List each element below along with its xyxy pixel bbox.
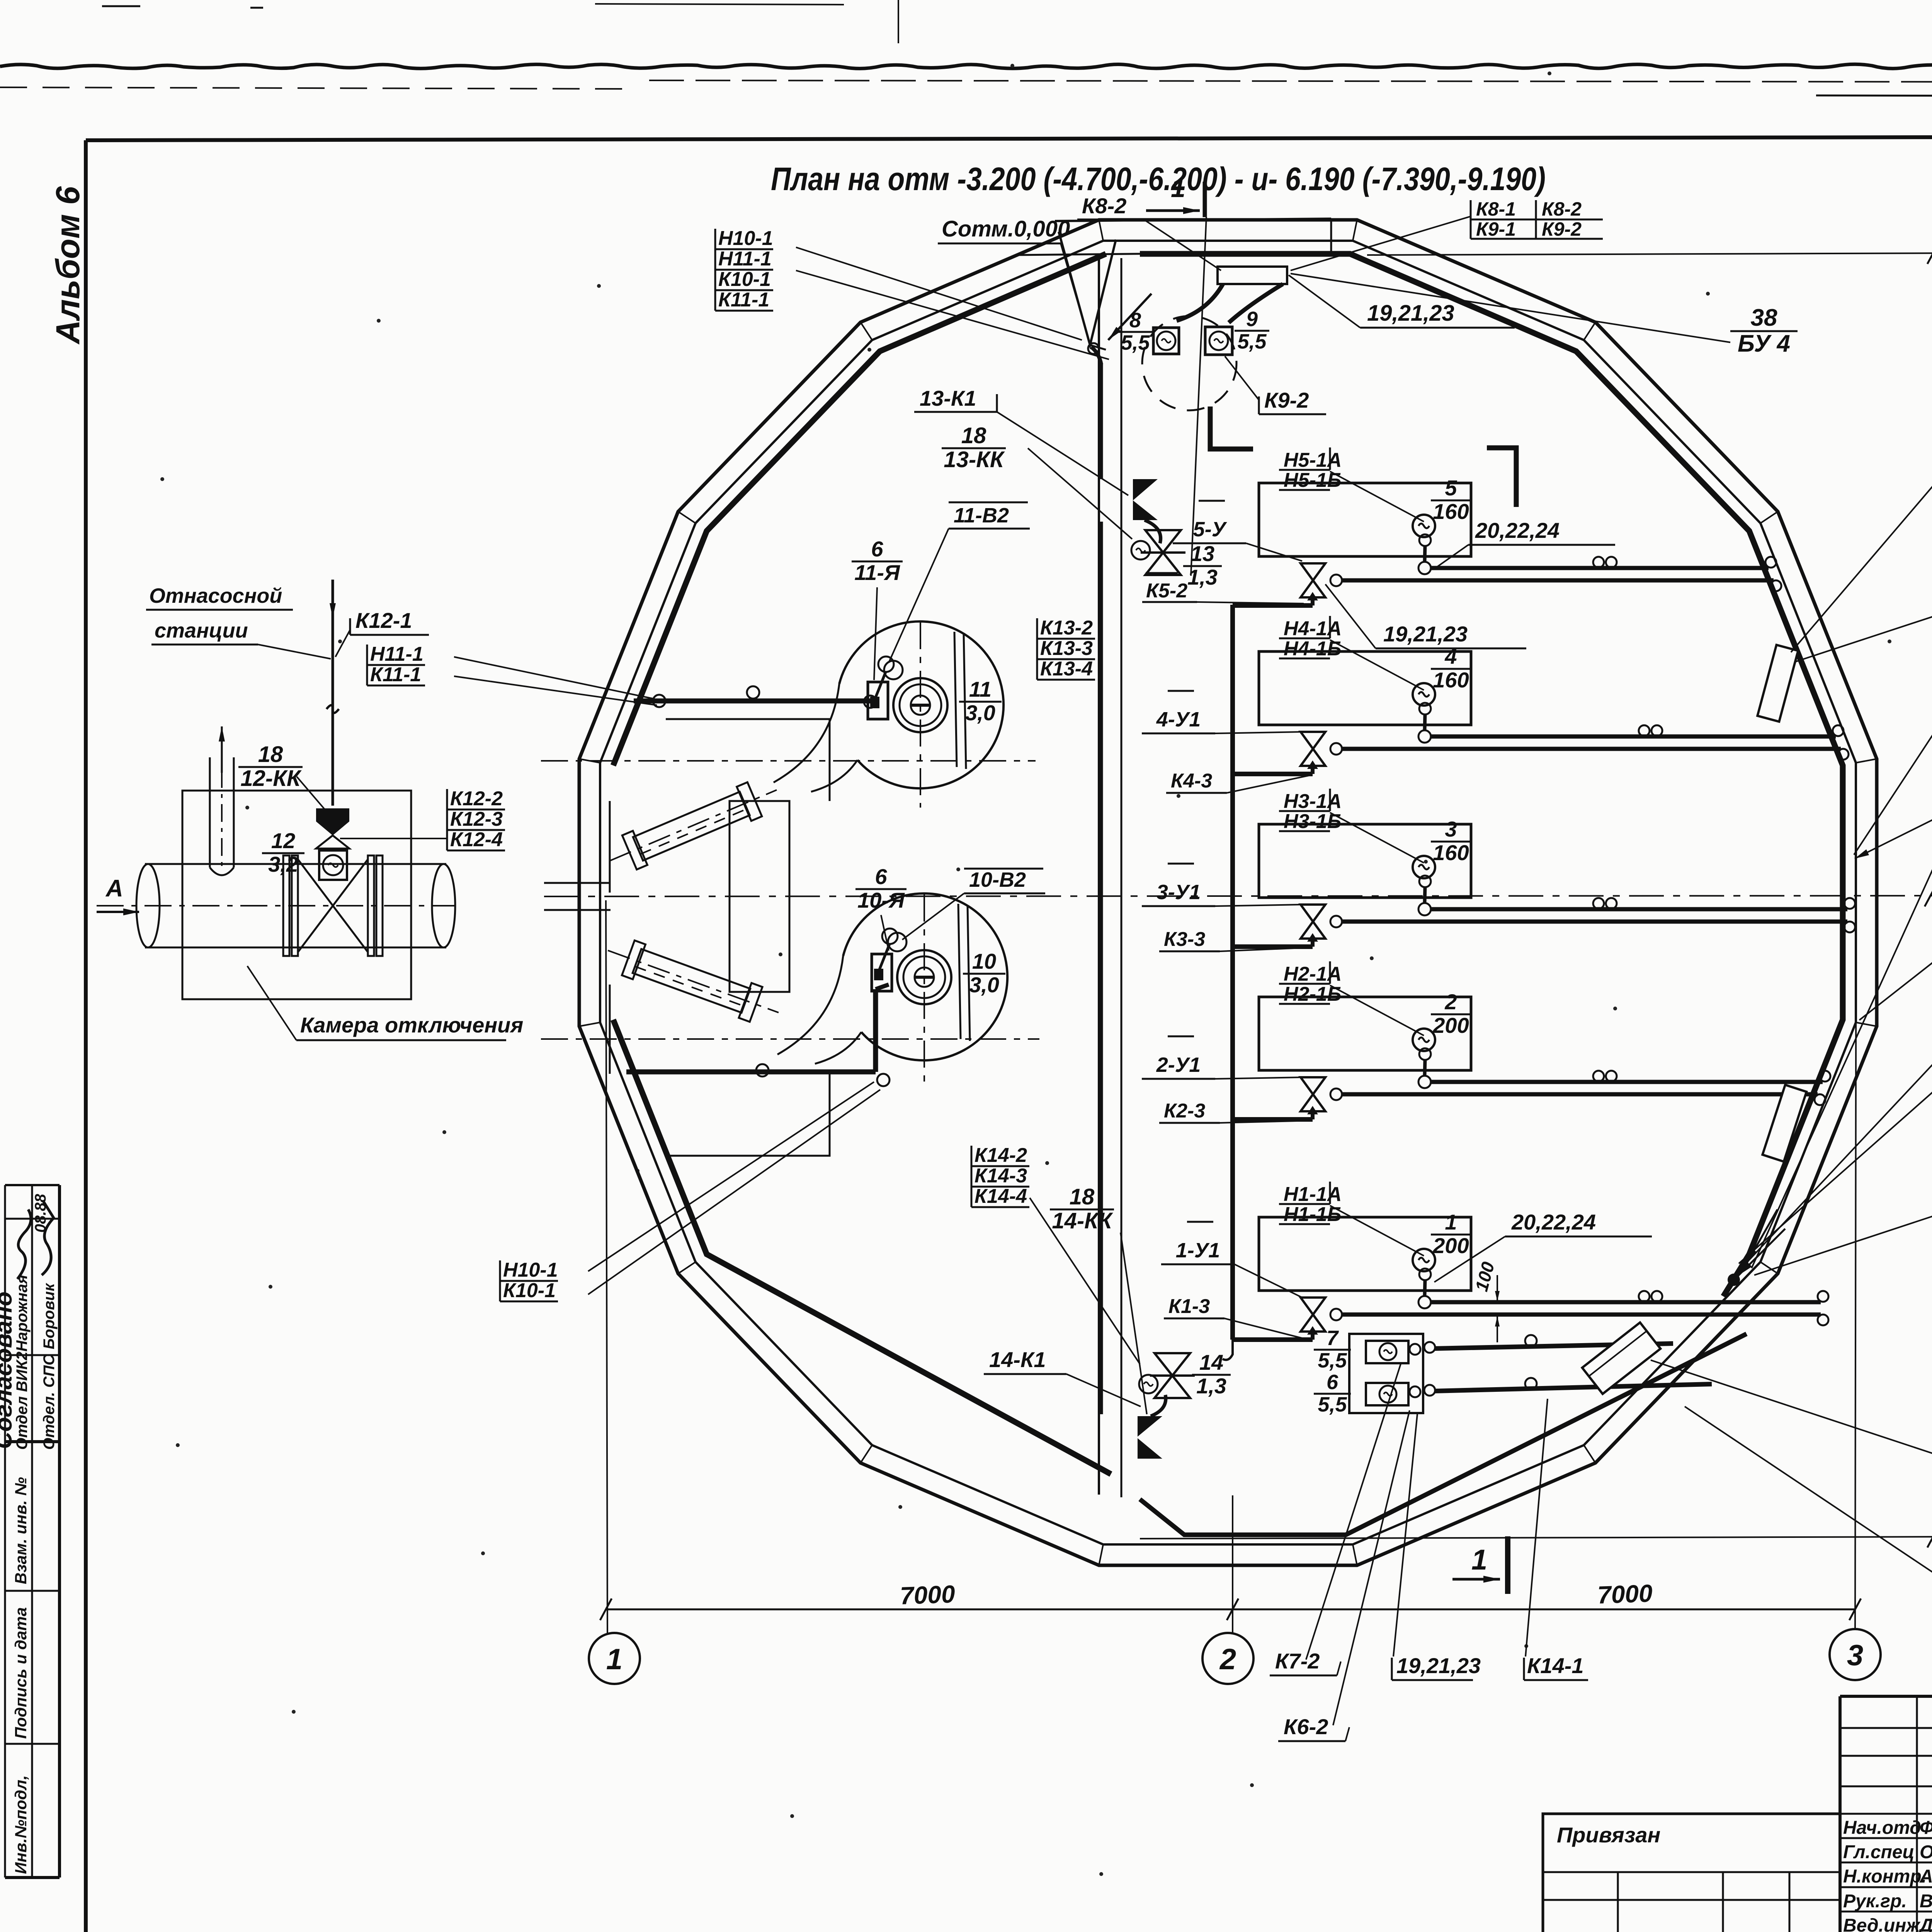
wall arrows cluster <box>1739 1229 1785 1275</box>
axis Б centerline <box>544 896 1932 896</box>
valve 4 (hourglass) <box>1301 732 1325 749</box>
svg-text:Фролов: Фролов <box>1920 1818 1932 1838</box>
valve 1 (hourglass) <box>1301 1298 1325 1315</box>
svg-text:Н10-1: Н10-1 <box>503 1259 558 1281</box>
svg-text:18: 18 <box>961 423 986 448</box>
svg-text:11: 11 <box>969 677 992 701</box>
valve 14 (hourglass) with motor <box>1155 1353 1190 1398</box>
svg-text:7000: 7000 <box>1597 1579 1653 1609</box>
svg-text:12: 12 <box>271 828 295 853</box>
svg-text:3,0: 3,0 <box>969 973 999 997</box>
svg-text:Обозная: Обозная <box>1920 1842 1932 1862</box>
inlet pipes (left) <box>602 773 784 878</box>
fold mark top <box>898 0 899 43</box>
svg-text:К10-1: К10-1 <box>718 268 771 291</box>
valve stub row 5 <box>1233 603 1313 608</box>
svg-text:К9-1: К9-1 <box>1476 218 1516 240</box>
svg-text:Н11-1: Н11-1 <box>718 248 772 270</box>
axis circle 1 <box>589 1633 640 1684</box>
svg-text:Камера отключения: Камера отключения <box>300 1013 523 1037</box>
cable riser bracket upper <box>1210 406 1253 449</box>
cable row 1 joint circles <box>1639 1291 1650 1302</box>
svg-text:11-В2: 11-В2 <box>954 504 1009 527</box>
svg-text:5,5: 5,5 <box>1237 330 1267 353</box>
scan top small dashes <box>102 5 140 7</box>
fan cables (thick) <box>1177 284 1223 321</box>
svg-text:Варчан: Варчан <box>1920 1891 1932 1912</box>
intake chamber walls <box>666 719 830 801</box>
svg-text:1: 1 <box>606 1643 622 1676</box>
cable row 5 joint circles <box>1593 557 1604 568</box>
svg-text:Альбом 6: Альбом 6 <box>49 186 87 345</box>
svg-text:200: 200 <box>1432 1233 1469 1258</box>
svg-text:19,21,23: 19,21,23 <box>1367 301 1454 326</box>
dim 100 with arrow <box>1497 1275 1498 1301</box>
svg-text:Дорофеев: Дорофеев <box>1918 1915 1932 1932</box>
svg-text:К12-1: К12-1 <box>355 608 412 633</box>
svg-text:Н11-1: Н11-1 <box>370 643 423 665</box>
svg-text:Гл.спец: Гл.спец <box>1843 1842 1915 1862</box>
aux pump 7 <box>1366 1341 1408 1363</box>
aux pump 7 cable <box>1410 1344 1420 1355</box>
svg-text:19,21,23: 19,21,23 <box>1383 622 1468 646</box>
pump 2 label leader <box>1330 985 1424 1036</box>
svg-text:К14-1: К14-1 <box>1527 1653 1584 1678</box>
cable line row 5 upper (thick) <box>1431 566 1769 570</box>
station outer wall <box>579 220 1877 1565</box>
svg-text:1: 1 <box>1471 1544 1487 1576</box>
valve collector (thick vertical) <box>1230 605 1235 1340</box>
svg-text:Нач.отд: Нач.отд <box>1843 1818 1921 1838</box>
cable К12-1 line <box>332 603 334 806</box>
svg-text:БУ 4: БУ 4 <box>1738 330 1790 357</box>
pump 3 label leader <box>1330 813 1424 863</box>
valve 3 (hourglass) <box>1301 905 1325 922</box>
svg-text:К1-3: К1-3 <box>1168 1295 1210 1318</box>
pump unit 5 outline <box>1259 483 1471 556</box>
svg-text:2: 2 <box>1444 990 1457 1014</box>
main pump 11 motor <box>893 678 947 732</box>
svg-text:Аронсон: Аронсон <box>1919 1866 1932 1887</box>
dimension line bottom <box>606 1609 1855 1611</box>
svg-text:К3-3: К3-3 <box>1164 928 1205 951</box>
svg-text:Отдел. СПС: Отдел. СПС <box>41 1354 58 1450</box>
main pipe <box>145 863 446 865</box>
svg-text:К11-1: К11-1 <box>718 289 769 311</box>
svg-text:К5-2: К5-2 <box>1146 580 1187 602</box>
valve 5 (hourglass) <box>1301 563 1325 580</box>
svg-text:10-Я: 10-Я <box>857 888 905 912</box>
svg-text:5,5: 5,5 <box>1318 1349 1347 1372</box>
cable line row 4 lower (thick) <box>1342 747 1841 751</box>
svg-text:Н3-1А: Н3-1А <box>1284 790 1342 813</box>
fan 8 box <box>1153 328 1179 354</box>
ventilation slab on top flat <box>1055 219 1331 221</box>
svg-text:14-К1: 14-К1 <box>989 1347 1046 1372</box>
cable tray lining along wall (thick) <box>613 254 1106 765</box>
svg-text:2: 2 <box>1219 1643 1236 1676</box>
pump 10 supply cable (thick) <box>626 1070 876 1075</box>
pipe valve flanges <box>283 855 289 956</box>
svg-text:14: 14 <box>1199 1350 1223 1374</box>
cable row 3 joint circles <box>1593 898 1604 909</box>
svg-text:К8-2: К8-2 <box>1082 194 1126 218</box>
svg-text:11-Я: 11-Я <box>854 560 900 585</box>
drain pipe up <box>209 757 211 867</box>
svg-text:10-В2: 10-В2 <box>969 868 1026 891</box>
svg-text:К12-2: К12-2 <box>450 787 503 810</box>
main pump 10 bracket <box>872 954 892 991</box>
svg-text:6: 6 <box>875 864 887 889</box>
svg-text:К13-2: К13-2 <box>1040 617 1093 639</box>
svg-text:К7-2: К7-2 <box>1275 1649 1320 1673</box>
motor box on pipe <box>319 850 347 880</box>
svg-text:Сотм.0,000: Сотм.0,000 <box>942 216 1070 241</box>
aux pump group box <box>1349 1334 1423 1413</box>
collector foot line <box>1190 1342 1192 1344</box>
left stamp signatures <box>17 1209 31 1279</box>
svg-text:160: 160 <box>1433 840 1469 865</box>
svg-text:Н1-1А: Н1-1А <box>1284 1183 1342 1206</box>
svg-text:План на отм -3.200 (-4.700,-6.: План на отм -3.200 (-4.700,-6.200) - и- … <box>771 161 1546 197</box>
svg-text:1: 1 <box>1445 1210 1457 1234</box>
bottom inner floor line <box>1140 1334 1747 1535</box>
svg-text:К10-1: К10-1 <box>503 1279 556 1302</box>
svg-text:К12-3: К12-3 <box>450 808 503 830</box>
svg-text:Подпись и дата: Подпись и дата <box>12 1607 30 1739</box>
svg-text:3-У1: 3-У1 <box>1156 881 1201 904</box>
wall segment joints <box>1353 220 1357 241</box>
pump 2 motor symbol <box>1413 1029 1435 1051</box>
axis line А <box>1140 1537 1932 1539</box>
svg-text:К4-3: К4-3 <box>1171 770 1212 792</box>
svg-text:18: 18 <box>1070 1184 1095 1209</box>
svg-text:Н2-1А: Н2-1А <box>1284 963 1342 985</box>
valve stub row 1 <box>1233 1337 1313 1342</box>
pump 4 label leader <box>1330 640 1424 690</box>
svg-text:К12-4: К12-4 <box>450 828 503 851</box>
junction box БУ3 (rotated plate) <box>1582 1323 1661 1394</box>
svg-text:13: 13 <box>1190 541 1214 566</box>
pump 4 motor symbol <box>1413 683 1435 706</box>
svg-text:38: 38 <box>1751 304 1777 331</box>
wedge arrow <box>1108 294 1151 340</box>
main pump 11 discharge lines <box>954 632 957 767</box>
svg-text:Взам. инв. №: Взам. инв. № <box>12 1477 30 1584</box>
scan line top right <box>1816 95 1932 97</box>
svg-text:12-КК: 12-КК <box>240 766 301 791</box>
aux pump 6 <box>1366 1383 1408 1405</box>
svg-text:20,22,24: 20,22,24 <box>1511 1210 1596 1234</box>
drawing frame <box>86 136 1932 140</box>
black valve on К12-1 <box>316 808 349 821</box>
svg-text:К13-4: К13-4 <box>1040 658 1093 680</box>
svg-text:7000: 7000 <box>900 1580 956 1610</box>
svg-text:Н5-1А: Н5-1А <box>1284 449 1342 471</box>
svg-text:Привязан: Привязан <box>1557 1823 1660 1847</box>
valve stub row 3 <box>1233 944 1313 949</box>
svg-text:Инв.№подл,: Инв.№подл, <box>12 1775 30 1874</box>
svg-text:К11-1: К11-1 <box>370 663 421 686</box>
main pump 10 volute <box>843 893 1007 1060</box>
valve stub row 4 <box>1233 772 1313 776</box>
axis 1 extension line <box>606 900 607 1633</box>
svg-text:Боровик: Боровик <box>41 1283 58 1349</box>
cable row 2 joint circles <box>1593 1071 1604 1082</box>
axis circle 2 <box>1202 1633 1253 1684</box>
svg-text:К8-2: К8-2 <box>1542 198 1582 220</box>
main pump 11 volute <box>839 621 1003 788</box>
pump 1 motor symbol <box>1413 1249 1435 1271</box>
svg-text:1,3: 1,3 <box>1196 1374 1226 1398</box>
left stamp table <box>5 1184 60 1186</box>
svg-text:19,21,23: 19,21,23 <box>1396 1653 1481 1678</box>
pump 10 shaft circle <box>888 933 906 951</box>
pump 1 label leader <box>1330 1206 1424 1256</box>
cable line row 3 upper (thick) <box>1431 907 1847 912</box>
section cut line <box>1191 217 1206 576</box>
pump 5 motor symbol <box>1413 515 1435 537</box>
svg-text:200: 200 <box>1432 1013 1469 1037</box>
svg-text:Вед.инж.: Вед.инж. <box>1843 1915 1925 1932</box>
svg-text:Согласовано: Согласовано <box>0 1291 17 1449</box>
pump unit 1 outline <box>1259 1217 1471 1291</box>
svg-text:6: 6 <box>871 537 883 561</box>
svg-text:Н10-1: Н10-1 <box>718 227 773 250</box>
cable line row 1 lower (thick) <box>1342 1313 1821 1317</box>
svg-text:3: 3 <box>1445 817 1457 841</box>
svg-text:Н4-1А: Н4-1А <box>1284 617 1342 640</box>
cable line row 4 upper (thick) <box>1431 735 1836 739</box>
chamber outline <box>182 791 411 999</box>
svg-text:3: 3 <box>1847 1639 1863 1672</box>
axis 2 extension line <box>1232 1495 1233 1633</box>
axis circle 3 <box>1830 1629 1881 1680</box>
dashed circle (vent zone) <box>1142 316 1236 410</box>
pump unit 3 outline <box>1259 824 1471 898</box>
svg-text:8: 8 <box>1129 309 1141 332</box>
pump 10 axis <box>541 1038 1039 1040</box>
svg-text:1-У1: 1-У1 <box>1176 1239 1220 1262</box>
pump 11 axis <box>541 760 1036 762</box>
svg-text:К2-3: К2-3 <box>1164 1100 1205 1122</box>
main pump 11 bracket <box>868 682 888 719</box>
svg-text:К14-4: К14-4 <box>975 1185 1027 1207</box>
cable line row 2 upper (thick) <box>1431 1080 1823 1084</box>
axis 3 extension line <box>1855 784 1856 1629</box>
cable riser bracket right <box>1487 448 1516 507</box>
scan edge dashed line top <box>0 87 622 89</box>
svg-text:10: 10 <box>972 949 996 973</box>
vent slab left wedge <box>1059 232 1116 345</box>
svg-text:13-К1: 13-К1 <box>920 386 976 410</box>
pump 11 supply cable (thick) <box>634 699 870 704</box>
junction box БУ1 (rotated plate) <box>1762 1085 1806 1162</box>
cable line row 5 lower (thick) <box>1342 578 1774 583</box>
scan dots <box>377 319 381 323</box>
svg-text:4-У1: 4-У1 <box>1156 708 1201 731</box>
pump 3 motor symbol <box>1413 856 1435 878</box>
svg-text:3,0: 3,0 <box>965 701 995 725</box>
svg-text:К9-2: К9-2 <box>1542 218 1582 240</box>
svg-text:К8-1: К8-1 <box>1476 198 1516 220</box>
svg-text:К9-2: К9-2 <box>1264 388 1309 412</box>
svg-text:1,3: 1,3 <box>1187 565 1218 589</box>
svg-text:К13-3: К13-3 <box>1040 637 1093 660</box>
svg-text:Н.контр.: Н.контр. <box>1843 1866 1927 1887</box>
inlet stub through wall <box>544 882 611 884</box>
main pump 10 discharge lines <box>958 904 961 1039</box>
svg-text:7: 7 <box>1327 1327 1339 1350</box>
svg-text:6: 6 <box>1327 1371 1338 1394</box>
svg-text:14-КК: 14-КК <box>1052 1208 1113 1233</box>
svg-text:9: 9 <box>1246 308 1258 331</box>
vent unit rectangle <box>1218 267 1287 284</box>
pipe valve cross <box>298 859 368 952</box>
cable line row 2 lower (thick) <box>1342 1092 1818 1097</box>
fan 9 box <box>1205 327 1232 355</box>
svg-text:2-У1: 2-У1 <box>1156 1053 1201 1077</box>
pump unit 4 outline <box>1259 651 1471 725</box>
svg-text:5-У: 5-У <box>1193 518 1227 541</box>
title block outer <box>1838 1696 1842 1932</box>
svg-text:К14-3: К14-3 <box>975 1165 1027 1187</box>
junction box БУ2 (rotated plate) <box>1757 645 1798 722</box>
cable entry 14-К1 (black flags) <box>1138 1416 1162 1437</box>
pump 11 shaft circle <box>884 661 903 679</box>
cable line row 1 upper (thick) <box>1431 1300 1821 1304</box>
svg-text:13-КК: 13-КК <box>944 447 1005 472</box>
corridor wall lines <box>1098 258 1100 1495</box>
svg-text:160: 160 <box>1433 668 1469 692</box>
aux pump 6 cable <box>1410 1386 1420 1397</box>
axis line В <box>1367 253 1932 255</box>
labels К8-1 К8-2 К9-1 К9-2 box <box>1470 200 1472 239</box>
svg-text:5,5: 5,5 <box>1318 1393 1347 1416</box>
svg-text:5,5: 5,5 <box>1121 331 1150 354</box>
cable row 4 joint circles <box>1639 725 1650 736</box>
valve 13 (hourglass) with motor <box>1145 530 1181 575</box>
scan edge wavy line top <box>0 64 1932 68</box>
svg-text:18: 18 <box>258 742 283 767</box>
station inner wall <box>600 241 1856 1544</box>
svg-text:станции: станции <box>155 619 248 642</box>
svg-text:160: 160 <box>1433 499 1469 524</box>
svg-text:Рук.гр.: Рук.гр. <box>1843 1891 1907 1912</box>
svg-text:К6-2: К6-2 <box>1284 1714 1328 1739</box>
svg-text:1: 1 <box>1171 173 1185 203</box>
cable line row 3 lower (thick) <box>1342 920 1847 924</box>
valve labels <box>1146 572 1178 574</box>
valve stub row 2 <box>1233 1117 1313 1122</box>
svg-text:А: А <box>105 875 123 902</box>
svg-text:Отнасосной: Отнасосной <box>149 584 282 607</box>
title block binding table <box>1543 1814 1840 1932</box>
pump 5 label leader <box>1330 471 1424 522</box>
corridor cable (thick vertical) <box>1091 347 1101 364</box>
svg-text:К14-2: К14-2 <box>975 1144 1027 1167</box>
signature table <box>1840 1727 1932 1729</box>
pump unit 2 outline <box>1259 997 1471 1070</box>
cable entry 13-К1 (black flag) <box>1133 479 1158 500</box>
valve 2 (hourglass) <box>1301 1077 1325 1094</box>
main pump 10 motor <box>897 950 951 1004</box>
svg-text:5: 5 <box>1445 476 1457 500</box>
svg-text:20,22,24: 20,22,24 <box>1475 518 1560 543</box>
